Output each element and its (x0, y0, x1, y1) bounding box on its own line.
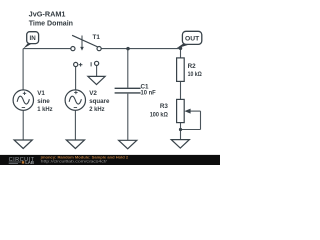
svg-text:10 nF: 10 nF (141, 90, 156, 97)
svg-text:R3: R3 (160, 103, 169, 110)
svg-text:square: square (89, 98, 110, 105)
svg-text:T1: T1 (93, 34, 101, 41)
svg-text:10 kΩ: 10 kΩ (188, 71, 202, 78)
svg-text:sine: sine (37, 98, 50, 105)
svg-text:httр://circuitlab.com/c/acs4cf: httр://circuitlab.com/c/acs4cf/ (41, 158, 108, 163)
svg-text:R2: R2 (188, 63, 197, 70)
svg-text:JvG-RAM1: JvG-RAM1 (29, 10, 66, 19)
svg-text:OUT: OUT (185, 35, 199, 42)
svg-text:Time Domain: Time Domain (29, 19, 73, 28)
svg-text:2 kHz: 2 kHz (89, 106, 104, 113)
svg-text:LAB: LAB (25, 160, 34, 165)
svg-text:1 kHz: 1 kHz (37, 106, 52, 113)
svg-text:100 kΩ: 100 kΩ (150, 111, 168, 118)
svg-text:V2: V2 (89, 90, 97, 97)
svg-text:IN: IN (30, 35, 37, 42)
svg-text:V1: V1 (37, 90, 45, 97)
